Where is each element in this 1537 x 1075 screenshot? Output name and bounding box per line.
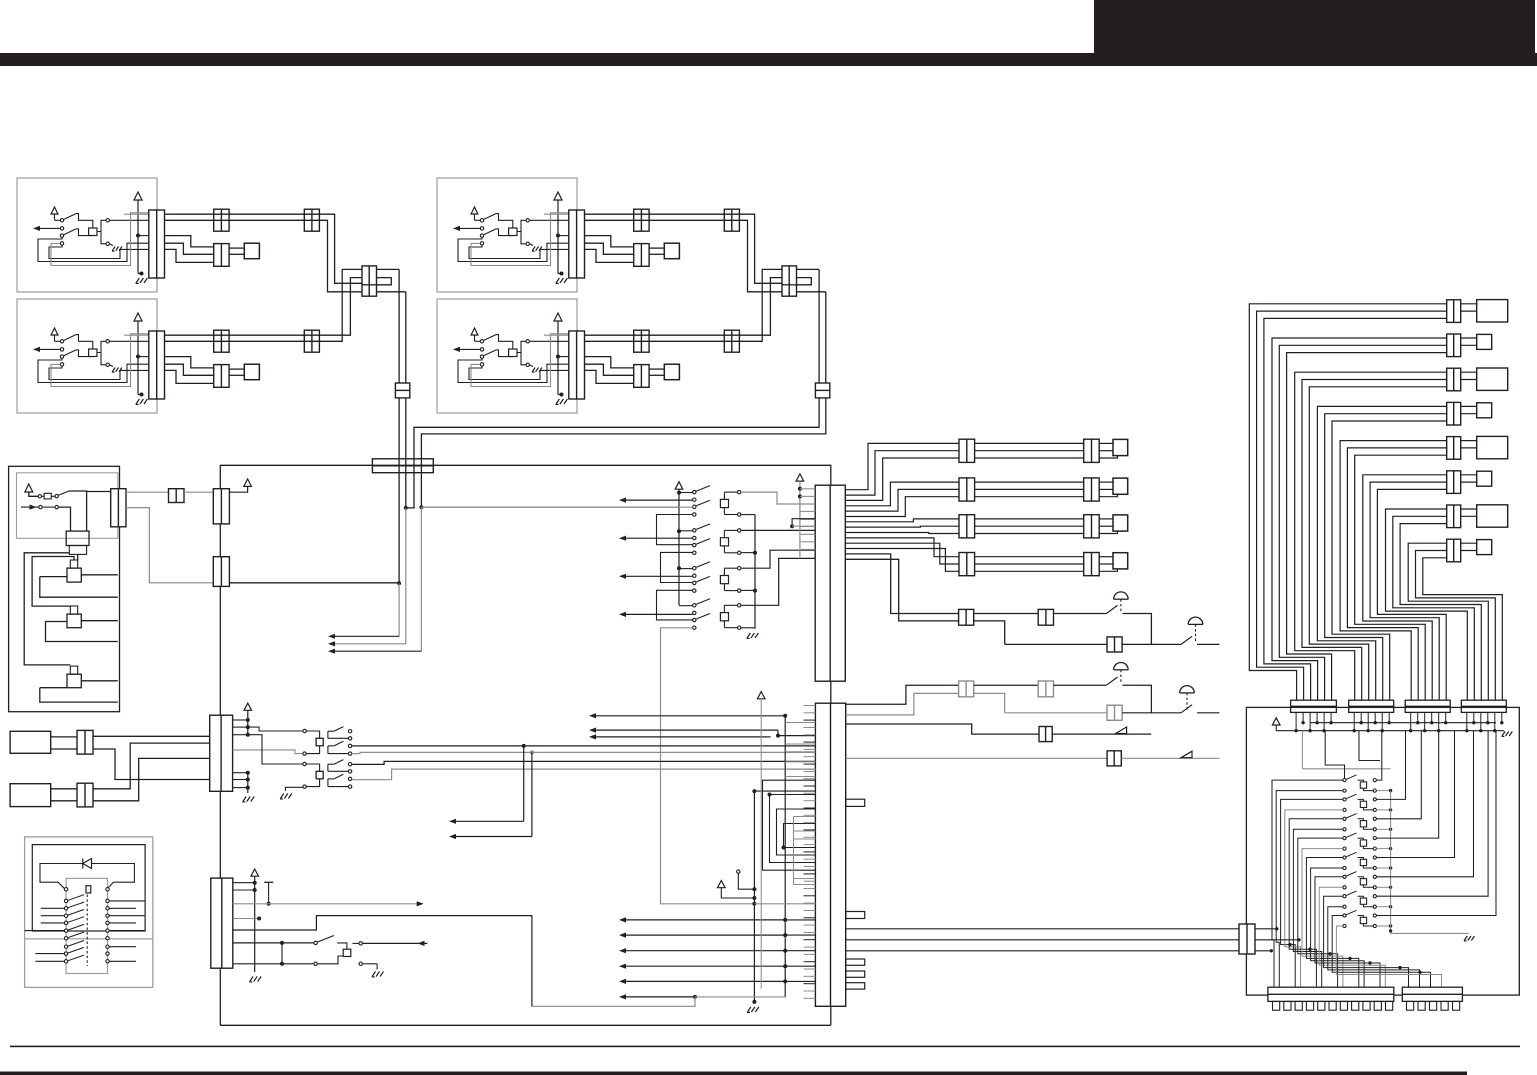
inline connector harness-left bbox=[395, 383, 409, 398]
loop wire a U3 bbox=[458, 237, 569, 261]
drop to arrow6 bbox=[531, 752, 533, 836]
bank cell 1 contacts bbox=[693, 490, 696, 493]
module cascade cell 1 b bbox=[1276, 791, 1343, 988]
sender1 wire b crossover bbox=[93, 749, 210, 780]
sender box 1 bbox=[10, 731, 51, 753]
internal ground U1 bbox=[109, 244, 113, 246]
loop wire b U3 bbox=[469, 245, 569, 258]
switch contacts U1 bbox=[60, 219, 63, 222]
speaker wires 1 bbox=[975, 442, 1084, 444]
ladder gray feed triangle bbox=[796, 474, 804, 481]
module riser 8 bbox=[1376, 731, 1488, 897]
ladder gray vertical bbox=[799, 481, 801, 557]
wire U2 w1 bbox=[165, 334, 305, 336]
speaker wires 2 bbox=[975, 481, 1084, 483]
arrow wire b3 bbox=[622, 950, 785, 952]
loop wire b U1 bbox=[49, 245, 149, 258]
ladder rungs M5b mid bbox=[794, 816, 816, 818]
speaker riser c3 w3 bbox=[845, 533, 959, 534]
inline connector harness-right bbox=[815, 383, 829, 398]
speaker box 3 bbox=[1113, 515, 1128, 531]
module left connector bbox=[1239, 924, 1255, 954]
relay contact row 10 bbox=[64, 960, 67, 963]
module riser 2 bbox=[1376, 731, 1381, 780]
module cascade cell 2 b bbox=[1285, 810, 1343, 987]
vertical feed D below bar bbox=[420, 473, 422, 508]
loom circuit 1 wire 3 bbox=[1264, 318, 1447, 700]
jb fuse element bbox=[44, 493, 51, 499]
junction connector right bbox=[782, 266, 797, 296]
M3 pin wires top bbox=[233, 719, 248, 721]
wire U2 to motor-circuit box bbox=[229, 368, 244, 370]
jb fuse3 loop bbox=[40, 688, 118, 702]
module sense bus ground bbox=[1391, 932, 1469, 934]
loom bottom connector 4 bbox=[1461, 700, 1506, 712]
module cell 3 bbox=[1343, 817, 1346, 820]
power feed wire U1 bbox=[137, 200, 139, 274]
loop wire gray U1 bbox=[51, 213, 149, 266]
loom terminal small box 4 bbox=[1477, 403, 1492, 418]
module sense bus bbox=[1390, 791, 1392, 934]
field contact lower U3 bbox=[526, 242, 529, 245]
module cascade cell 1 a bbox=[1272, 780, 1343, 987]
loom circuit 6 wire 1 bbox=[1363, 475, 1447, 700]
loop wire gray U4 bbox=[471, 334, 569, 387]
loom circuit 2 wire 2 bbox=[1279, 345, 1446, 700]
wire U3 w3 step bbox=[585, 236, 634, 247]
wire U4 w3 step bbox=[585, 357, 634, 368]
junction connector left bbox=[362, 266, 377, 296]
gray drop D to arrow3 bbox=[420, 507, 422, 651]
lamp switch A bbox=[1106, 605, 1117, 613]
wire w1 internal U4 bbox=[544, 334, 569, 336]
module cell 3 bus stub bbox=[1376, 828, 1390, 830]
relay pole 1 bbox=[327, 731, 329, 738]
relay contact row 1 bbox=[64, 888, 67, 891]
bank gray row out bbox=[421, 506, 692, 508]
wire w3 internal U3 bbox=[558, 235, 569, 237]
relay row wires right short bbox=[109, 907, 136, 909]
field contact upper U4 bbox=[526, 340, 529, 343]
fuse2 cap bbox=[70, 606, 77, 614]
feed wire right-b to left bbox=[421, 398, 825, 459]
M3 pin wires bottom bbox=[233, 772, 248, 774]
speaker riser c4 w1 bbox=[845, 538, 959, 557]
internal ground U2 bbox=[109, 365, 113, 367]
relay coil pins bbox=[303, 729, 306, 732]
illumination arrow U3 bbox=[456, 227, 480, 229]
module cell 7 bus stub bbox=[1376, 906, 1390, 908]
lamp conn A2 bbox=[1038, 609, 1053, 625]
loom circuit 7 wire 1 bbox=[1386, 509, 1468, 700]
wire U2 w3 step bbox=[165, 357, 214, 368]
inline connector U2-A bbox=[214, 330, 229, 352]
loom circuit 7 wire 3 bbox=[1400, 524, 1481, 701]
module riser wires bbox=[1301, 731, 1303, 769]
bank ground bus bbox=[741, 514, 755, 516]
wire left-bottom w1 rise bbox=[302, 278, 362, 336]
speaker connector 1-2 bbox=[1084, 439, 1100, 462]
wire U4 w2 bbox=[585, 340, 725, 342]
long wire row2 gray bbox=[352, 752, 816, 753]
wire right-bottom w1 rise bbox=[722, 278, 782, 336]
sender2 wires bbox=[51, 788, 77, 790]
inline connector U4-B bbox=[634, 365, 649, 388]
junction block outline bbox=[9, 466, 120, 711]
jb contact d bbox=[55, 505, 58, 508]
bank cell 1 coil bbox=[720, 499, 728, 507]
lamp conn B bbox=[1107, 637, 1122, 652]
power triangle U1 bbox=[134, 192, 142, 200]
switch blades U1 bbox=[64, 214, 76, 220]
unit connector U2 bbox=[149, 331, 165, 399]
module cascade cell 7 a bbox=[1324, 896, 1409, 987]
loom connector 3 bbox=[1447, 368, 1461, 391]
nested loop 1 bbox=[763, 780, 816, 870]
jb arrow in bbox=[21, 506, 39, 508]
bank cell 2 contacts bbox=[693, 529, 696, 532]
speaker box 2 wires bbox=[1099, 481, 1113, 483]
wire U3 to motor-circuit box bbox=[649, 247, 664, 249]
wire right-top w1 drop bbox=[722, 214, 782, 283]
lamp row B tail bbox=[1197, 643, 1219, 645]
sender2 connector bbox=[77, 783, 93, 807]
capacitor stub bbox=[264, 881, 273, 883]
wire w3 internal U2 bbox=[138, 356, 149, 358]
loom bottom connector 1 bbox=[1291, 700, 1337, 712]
loom wires to small box 2 bbox=[1461, 337, 1477, 339]
speaker box 4 wires bbox=[1099, 556, 1113, 558]
motor U1 bbox=[89, 228, 97, 236]
field contact lower U1 bbox=[106, 242, 109, 245]
loop wire b U4 bbox=[469, 366, 569, 379]
power feed wire U4 bbox=[557, 321, 559, 395]
relay pole 1 bbox=[327, 764, 329, 771]
connector M1 on box edge bbox=[213, 489, 229, 524]
defogger flag E bbox=[1116, 727, 1127, 734]
speaker box 1 wires bbox=[1099, 442, 1113, 444]
gray feed to switch bank bbox=[421, 506, 679, 508]
relay contact row 2 bbox=[64, 899, 67, 902]
bank power triangle bbox=[675, 482, 683, 490]
connector M2 on box edge bbox=[213, 557, 229, 587]
wire U1 w2 bbox=[165, 219, 305, 221]
wire w1 internal U3 bbox=[544, 213, 569, 215]
footer rule thick bbox=[0, 1072, 1467, 1075]
switch blades U3 bbox=[484, 214, 496, 220]
jb contact b bbox=[55, 494, 58, 497]
M5b right tab 4 bbox=[846, 971, 865, 977]
speaker riser c2 w3 bbox=[845, 497, 959, 517]
ground U1 bbox=[140, 272, 144, 276]
lamp row D wire bbox=[1005, 712, 1107, 714]
switch triangle U1 bbox=[51, 207, 58, 214]
wire U4 w1 bbox=[585, 334, 725, 336]
internal ground U3 bbox=[529, 244, 533, 246]
lamp row C tail bbox=[1123, 685, 1152, 713]
switch contacts U3 bbox=[480, 219, 483, 222]
relay coil element bbox=[86, 886, 91, 893]
jb wire to connector bbox=[69, 491, 87, 531]
module riser 4 bbox=[1376, 731, 1421, 819]
speaker wires 4 bbox=[975, 556, 1084, 558]
relay row wires left top bbox=[41, 907, 65, 909]
bank cell 1 blades bbox=[696, 486, 710, 492]
wire w2 internal U3 bbox=[529, 219, 568, 221]
wire U3 w2 bbox=[585, 219, 725, 221]
contact to field U4 bbox=[517, 341, 526, 352]
module cascade junction dots bbox=[1288, 943, 1291, 946]
bank chain 1-2 bbox=[657, 515, 693, 545]
bank cell 3 blades bbox=[696, 562, 710, 568]
contact to field U1 bbox=[97, 220, 106, 231]
relay B ground bbox=[285, 787, 303, 791]
module cascade cell 5 b bbox=[1311, 868, 1365, 987]
circle stub M5b bbox=[737, 870, 740, 873]
arrow wire 9 bbox=[592, 736, 771, 738]
module cascade cell 7 b bbox=[1328, 907, 1420, 988]
inline connector U1-C bbox=[304, 209, 319, 231]
lamp row C mid bbox=[974, 684, 1038, 686]
loom circuit 2 wire 1 bbox=[1272, 338, 1447, 700]
drop to arrow5 bbox=[523, 746, 525, 821]
module cell 8 bus stub bbox=[1376, 925, 1390, 927]
lamp switch D bbox=[1181, 705, 1192, 713]
lamp row D cont bbox=[1122, 712, 1181, 714]
loom wires to big box 3 bbox=[1461, 371, 1477, 373]
switch blades U2 bbox=[64, 335, 76, 341]
M5b right tab 1 bbox=[846, 799, 865, 806]
module cell 6 bbox=[1343, 875, 1346, 878]
ladder rungs M5top bbox=[800, 488, 815, 490]
power feed wire U3 bbox=[557, 200, 559, 274]
ladder feed vertical M5b bbox=[760, 699, 762, 989]
loom terminal big box 1 bbox=[1477, 300, 1508, 322]
module riser 1359 bbox=[1359, 731, 1380, 761]
inline connector U4-C bbox=[724, 330, 739, 352]
field contact upper U2 bbox=[106, 340, 109, 343]
arrow wire b1 bbox=[622, 919, 785, 921]
u-turn B to C bbox=[406, 473, 414, 508]
jb relay to fuse1 bbox=[77, 554, 79, 560]
diode loop bbox=[40, 864, 83, 889]
inline connector U3-C bbox=[724, 209, 739, 231]
door module outline bbox=[1246, 707, 1519, 995]
module riser 5 bbox=[1376, 731, 1438, 838]
wire left-top w1 drop bbox=[302, 214, 362, 283]
bank cell 1 right contacts bbox=[738, 490, 741, 493]
speaker connector 4-2 bbox=[1084, 553, 1100, 576]
contact to field U3 bbox=[517, 220, 526, 231]
wire U4 w4 step bbox=[585, 364, 634, 375]
jb relay box bbox=[66, 531, 89, 545]
module cell 2 bus stub bbox=[1376, 809, 1390, 811]
door loop wire bbox=[233, 916, 532, 1007]
unit connector U4 bbox=[569, 331, 585, 399]
module connector A teeth bbox=[1273, 1001, 1280, 1010]
bank cell 2 feed stub bbox=[679, 530, 693, 532]
M4 power drop to ground bbox=[254, 876, 256, 972]
loom bottom connector 2 bbox=[1349, 700, 1394, 712]
bank rung c2 bbox=[741, 529, 815, 531]
bank chain 2-3 bbox=[661, 552, 693, 582]
bank cell 2 right contacts bbox=[738, 529, 741, 532]
M4 wire sensor gray bbox=[233, 903, 421, 905]
bank cell 3 coil bbox=[720, 576, 728, 584]
bank power vertical bbox=[678, 489, 680, 605]
wire U2 w5 step bbox=[165, 370, 214, 383]
wire w1 internal U1 bbox=[124, 213, 149, 215]
nested loop 2 bbox=[770, 795, 816, 863]
jb loop mid bbox=[32, 557, 74, 607]
unit connector U3 bbox=[569, 210, 585, 278]
lamp A dome bbox=[1114, 592, 1129, 599]
bank cell 4 blades bbox=[696, 599, 710, 605]
bank rung c1 bbox=[741, 492, 815, 504]
loom wires to small box 4 bbox=[1461, 405, 1477, 407]
switch triangle U3 bbox=[471, 207, 478, 214]
lamp row C2 feed bbox=[846, 693, 959, 715]
loom circuit 2 wire 3 bbox=[1287, 353, 1447, 701]
speaker connector 4-1 bbox=[959, 553, 975, 576]
gray drop A to arrow1 bbox=[398, 583, 400, 636]
main control unit outline bbox=[220, 465, 831, 488]
M3 wire to relayT lower gray bbox=[233, 750, 303, 754]
terminal box U4 bbox=[664, 364, 679, 380]
module cell 7 bbox=[1343, 895, 1346, 898]
terminal box U3 bbox=[664, 243, 679, 259]
lamp row C feed bbox=[846, 685, 959, 704]
M4 wire 918 gray bbox=[233, 918, 259, 920]
loom wires to big box 7 bbox=[1461, 508, 1477, 510]
bank arrow wire 3 bbox=[622, 575, 693, 577]
module cell 1 bbox=[1343, 779, 1346, 782]
motor U3 bbox=[509, 228, 517, 236]
fuse1 cap bbox=[70, 560, 77, 568]
bank cell 4 contacts bbox=[693, 604, 696, 607]
field contact upper U1 bbox=[106, 219, 109, 222]
unit box U1 outline bbox=[17, 178, 157, 292]
module cell 1 bus stub bbox=[1376, 790, 1390, 792]
internal ground U4 bbox=[529, 365, 533, 367]
arrow wire b2 bbox=[622, 934, 785, 936]
loom circuit 7 wire 2 bbox=[1393, 516, 1475, 700]
arrow wire 2 bbox=[331, 643, 406, 645]
antenna row F cont bbox=[1121, 757, 1219, 759]
loom terminal big box 5 bbox=[1477, 436, 1508, 458]
wire U4 to motor-circuit box bbox=[649, 368, 664, 370]
lamp conn C2 bbox=[1038, 681, 1053, 697]
unit box U2 outline bbox=[17, 299, 157, 413]
field contact lower U4 bbox=[526, 363, 529, 366]
ladder long rung a bbox=[792, 519, 815, 527]
wire U3 w5 step bbox=[585, 249, 634, 262]
lamp row A wire bbox=[974, 613, 1038, 615]
wire w3 internal U1 bbox=[138, 235, 149, 237]
loom circuit 4 wire 2 bbox=[1325, 414, 1447, 701]
module cascade cell 4 b bbox=[1302, 849, 1343, 988]
M3 power triangle bbox=[244, 703, 252, 710]
module cascade cell 8 b bbox=[1336, 926, 1441, 987]
loop wire gray U2 bbox=[51, 334, 149, 387]
module riser 3 bbox=[1376, 731, 1405, 800]
ground U4 bbox=[560, 393, 564, 397]
junction block inner box bbox=[17, 473, 118, 539]
switch contacts U2 bbox=[60, 340, 63, 343]
module cell 5 bbox=[1343, 856, 1346, 859]
ground M5b bbox=[747, 1007, 750, 1012]
loom wires to small box 6 bbox=[1461, 474, 1477, 476]
fuse-bar connector bbox=[372, 459, 433, 473]
wire U1 w5 step bbox=[165, 249, 214, 262]
speaker riser c4 w2 bbox=[845, 543, 959, 564]
jb fuse2 out bbox=[81, 620, 118, 622]
arrow wire 8 bbox=[592, 729, 778, 731]
long wire row4 gray bbox=[352, 769, 816, 780]
connector M4 on box edge bbox=[211, 878, 233, 968]
key switch contacts bbox=[314, 941, 317, 944]
M5b right tab 3 bbox=[846, 959, 865, 965]
loom connector 1 bbox=[1447, 300, 1461, 323]
bank cell 3 right contacts bbox=[738, 567, 741, 570]
door switch loop bbox=[532, 997, 695, 1006]
speaker connector 1-1 bbox=[959, 439, 975, 462]
main box left edge mid segments bbox=[219, 524, 221, 557]
power triangle U2 bbox=[134, 313, 142, 321]
loom circuit 1 wire 1 bbox=[1249, 304, 1446, 700]
defogger row E cont bbox=[1052, 733, 1151, 735]
module cell 4 bbox=[1343, 837, 1346, 840]
M5b right tab 5 bbox=[846, 983, 865, 989]
ground U2 bbox=[140, 393, 144, 397]
relay contact row 5 bbox=[64, 921, 67, 924]
M3 power bus bbox=[247, 710, 249, 734]
loom terminal big box 3 bbox=[1477, 368, 1508, 390]
contact to field U2 bbox=[97, 341, 106, 352]
bank rung c4 bbox=[741, 558, 815, 605]
speaker connector 2-1 bbox=[959, 478, 975, 501]
wire U1 to motor-circuit box bbox=[229, 247, 244, 249]
feed wires through fuse bar bbox=[398, 459, 400, 473]
relay contact row 9 bbox=[64, 952, 67, 955]
bank cell 3 feed stub bbox=[679, 568, 693, 570]
relay pole 2 bbox=[327, 746, 329, 754]
lamp D dome bbox=[1180, 686, 1195, 693]
lamp row D tail bbox=[1197, 712, 1219, 714]
fuse3 cap bbox=[70, 666, 77, 674]
loom circuit 3 wire 2 bbox=[1302, 380, 1447, 701]
relay contact row 8 bbox=[64, 945, 67, 948]
unit connector U1 bbox=[149, 210, 165, 278]
module bus upper bbox=[1275, 725, 1277, 731]
M4 ground bbox=[250, 977, 253, 982]
wire jb to body connector bbox=[126, 491, 169, 493]
loom connector 4 bbox=[1447, 402, 1461, 425]
lamp switch B bbox=[1181, 636, 1192, 644]
fuse1 body bbox=[67, 568, 81, 582]
jb switch link bbox=[58, 507, 70, 531]
bank cell 2 coil bbox=[720, 538, 728, 546]
ladder rungs M5b dense bbox=[804, 705, 816, 707]
loom circuit 5 wire 1 bbox=[1340, 441, 1447, 701]
main box bottom edge bbox=[220, 1024, 831, 1026]
relay coil bbox=[316, 771, 323, 779]
M3 wire to relayB upper bbox=[248, 735, 303, 764]
sender2 wire b crossover bbox=[93, 758, 210, 800]
loom circuit 6 wire 3 bbox=[1377, 489, 1446, 700]
power feed wire U2 bbox=[137, 321, 139, 395]
module riser 9 bbox=[1376, 731, 1496, 916]
